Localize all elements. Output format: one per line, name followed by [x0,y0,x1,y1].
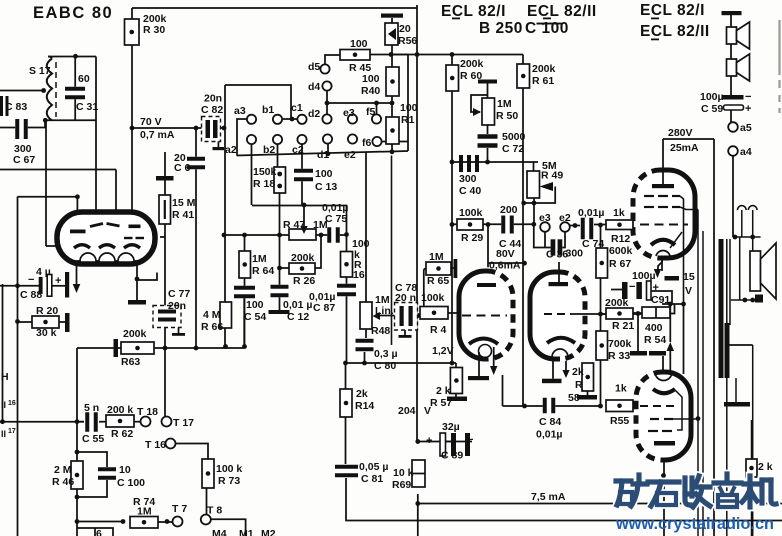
svg-text:400: 400 [645,322,663,334]
svg-text:C 75: C 75 [325,213,347,225]
svg-text:T 8: T 8 [207,505,222,517]
svg-text:C 100: C 100 [525,20,569,37]
svg-text:4 M: 4 M [203,309,221,321]
svg-text:16: 16 [8,400,16,407]
svg-text:1,2V: 1,2V [432,345,454,357]
svg-text:700k: 700k [608,338,632,350]
svg-text:10: 10 [119,464,131,476]
svg-text:R14: R14 [355,400,374,412]
svg-text:R 49: R 49 [541,170,563,182]
svg-text:32µ: 32µ [442,421,460,433]
svg-text:R 65: R 65 [427,275,449,287]
svg-text:R 66: R 66 [201,321,223,333]
svg-text:e2: e2 [559,212,571,224]
svg-text:300: 300 [566,248,584,260]
svg-text:C 13: C 13 [315,181,337,193]
svg-text:M4: M4 [212,528,227,536]
svg-text:200k: 200k [460,58,484,70]
svg-text:25mA: 25mA [670,142,699,154]
svg-text:0,01µ: 0,01µ [536,429,563,441]
svg-text:e3: e3 [343,107,355,119]
svg-text:R48: R48 [371,325,390,337]
svg-text:M1: M1 [239,528,254,536]
svg-text:C 84: C 84 [539,416,561,428]
svg-text:0,3 µ: 0,3 µ [374,348,398,360]
svg-text:C 83: C 83 [5,101,27,113]
svg-text:d1: d1 [317,149,329,161]
svg-text:100µ: 100µ [632,270,656,282]
svg-text:C 55: C 55 [82,433,104,445]
svg-text:c2: c2 [292,144,304,156]
svg-text:M2: M2 [261,528,276,536]
svg-text:C 74: C 74 [582,238,604,250]
svg-text:+: + [55,275,61,287]
svg-text:5 n: 5 n [84,402,99,414]
svg-text:a5: a5 [740,122,752,134]
svg-text:R 50: R 50 [496,110,518,122]
svg-text:R63: R63 [121,356,140,368]
svg-text:1M: 1M [497,98,512,110]
svg-text:204: 204 [398,405,416,417]
svg-text:R 26: R 26 [293,275,315,287]
svg-text:0,7 mA: 0,7 mA [140,129,175,141]
svg-text:20n: 20n [168,300,186,312]
svg-text:280V: 280V [668,127,693,139]
svg-text:C 40: C 40 [459,185,481,197]
svg-text:R40: R40 [361,85,380,97]
svg-text:150k: 150k [253,166,277,178]
svg-text:d5: d5 [308,61,320,73]
svg-text:R 33: R 33 [608,350,630,362]
svg-text:ECL 82/I: ECL 82/I [441,3,506,20]
svg-text:R 21: R 21 [612,320,634,332]
svg-text:a4: a4 [740,146,752,158]
svg-text:17: 17 [8,428,16,435]
svg-text:R 46: R 46 [52,476,74,488]
svg-text:H: H [1,371,9,383]
svg-text:T 7: T 7 [172,503,187,515]
svg-text:C 80: C 80 [374,360,396,372]
svg-text:T 17: T 17 [173,417,194,429]
svg-text:C 54: C 54 [244,311,266,323]
svg-text:2k: 2k [572,366,584,378]
svg-text:80V: 80V [496,248,515,260]
svg-text:C 67: C 67 [13,154,35,166]
svg-text:R 57: R 57 [430,397,452,409]
svg-text:100µ: 100µ [700,91,724,103]
svg-text:R 62: R 62 [111,428,133,440]
svg-text:60: 60 [78,73,90,85]
svg-text:10 k: 10 k [393,467,414,479]
svg-text:2 k: 2 k [436,385,451,397]
svg-text:C 100: C 100 [117,477,145,489]
svg-text:20: 20 [399,23,411,35]
svg-text:R 64: R 64 [252,265,274,277]
svg-text:R 54: R 54 [644,334,666,346]
svg-text:0,01 µ: 0,01 µ [283,299,312,311]
svg-text:R 73: R 73 [218,475,240,487]
svg-text:R 41: R 41 [172,209,194,221]
svg-text:C 72: C 72 [502,143,524,155]
svg-text:d2: d2 [308,108,320,120]
svg-text:C 87: C 87 [313,302,335,314]
svg-text:+: + [745,103,751,115]
svg-text:2 k: 2 k [758,461,773,473]
svg-text:2k: 2k [356,388,368,400]
svg-text:a3: a3 [234,105,246,117]
svg-text:200 k: 200 k [107,404,133,416]
svg-text:0,05 µ: 0,05 µ [359,461,388,473]
svg-text:EABC 80: EABC 80 [33,4,113,22]
svg-text:b2: b2 [263,144,275,156]
svg-text:7,5 mA: 7,5 mA [531,491,566,503]
svg-text:T 18: T 18 [137,406,158,418]
svg-text:C 88: C 88 [20,289,42,301]
svg-text:70 V: 70 V [140,116,162,128]
svg-text:C 81: C 81 [361,473,383,485]
svg-text:R 18: R 18 [253,178,275,190]
svg-text:4 µ: 4 µ [36,266,51,278]
svg-text:1k: 1k [613,207,625,219]
svg-text:1M: 1M [429,251,444,263]
svg-text:100: 100 [315,168,333,180]
svg-text:0,6mA: 0,6mA [489,260,521,272]
svg-text:200k: 200k [123,328,147,340]
svg-text:R56: R56 [398,35,417,47]
svg-text:C 82: C 82 [201,104,223,116]
svg-text:R 30: R 30 [143,24,165,36]
svg-text:+: + [426,435,432,447]
svg-text:1k: 1k [615,383,627,395]
svg-text:R55: R55 [610,415,629,427]
svg-text:100: 100 [350,38,368,50]
svg-text:C91: C91 [651,294,670,306]
svg-text:C 31: C 31 [76,101,98,113]
svg-text:C 59: C 59 [701,103,723,115]
svg-text:d4: d4 [308,81,320,93]
svg-text:C 6: C 6 [174,162,191,174]
svg-text:+: + [653,282,659,294]
svg-text:S 17: S 17 [29,65,51,77]
svg-text:−: − [467,434,473,446]
svg-text:R 20: R 20 [36,305,58,317]
svg-text:C 77: C 77 [168,288,190,300]
svg-text:−: − [629,281,635,293]
svg-text:c1: c1 [291,102,303,114]
svg-text:5000: 5000 [502,131,526,143]
svg-text:100 k: 100 k [216,463,242,475]
svg-text:R 67: R 67 [609,258,631,270]
svg-text:6: 6 [96,528,102,536]
svg-text:1M: 1M [252,253,267,265]
svg-text:−: − [745,91,751,103]
svg-text:58: 58 [568,392,580,404]
svg-text:200k: 200k [291,252,315,264]
svg-text:100k: 100k [421,292,445,304]
svg-text:ECL 82/II: ECL 82/II [527,3,597,20]
svg-text:B 250: B 250 [479,20,523,37]
svg-text:R 29: R 29 [461,232,483,244]
svg-text:15: 15 [683,271,695,283]
svg-text:R12: R12 [611,233,630,245]
svg-text:20 n: 20 n [395,292,416,304]
svg-text:100: 100 [362,73,380,85]
svg-text:ECL 82/I: ECL 82/I [640,2,705,19]
svg-text:II: II [1,400,6,410]
svg-text:T 16: T 16 [145,439,166,451]
svg-text:C 89: C 89 [441,450,463,462]
svg-text:2 M: 2 M [54,464,72,476]
svg-text:100: 100 [246,299,264,311]
svg-text:100k: 100k [459,207,483,219]
svg-text:b1: b1 [262,104,274,116]
svg-text:f6: f6 [362,137,371,149]
svg-text:30 k: 30 k [36,327,57,339]
svg-text:20n: 20n [204,93,222,105]
svg-text:200k: 200k [605,297,629,309]
svg-text:R 61: R 61 [532,75,554,87]
svg-text:e2: e2 [344,149,356,161]
svg-text:www.crystalradio.cn: www.crystalradio.cn [615,515,774,533]
svg-text:e3: e3 [539,212,551,224]
svg-text:200k: 200k [532,63,556,75]
svg-text:a2: a2 [225,144,237,156]
svg-text:R 60: R 60 [460,70,482,82]
svg-text:Lin.: Lin. [375,305,394,317]
svg-text:300: 300 [459,173,477,185]
svg-text:16: 16 [353,269,365,281]
svg-text:200: 200 [500,204,518,216]
svg-text:R: R [575,379,583,391]
svg-text:R 47: R 47 [283,219,305,231]
svg-text:1M: 1M [137,506,152,518]
svg-text:II: II [1,429,6,439]
svg-text:R 4: R 4 [430,324,447,336]
svg-text:600k: 600k [609,245,633,257]
svg-text:100: 100 [400,102,418,114]
svg-text:R1: R1 [401,114,415,126]
svg-text:C 12: C 12 [287,311,309,323]
svg-text:f5: f5 [366,106,375,118]
svg-text:V: V [685,285,692,297]
svg-text:15 M: 15 M [172,197,196,209]
svg-text:0,01µ: 0,01µ [578,207,605,219]
svg-text:R69: R69 [392,479,411,491]
svg-text:−: − [28,274,34,286]
svg-text:ECL 82/II: ECL 82/II [640,23,710,40]
